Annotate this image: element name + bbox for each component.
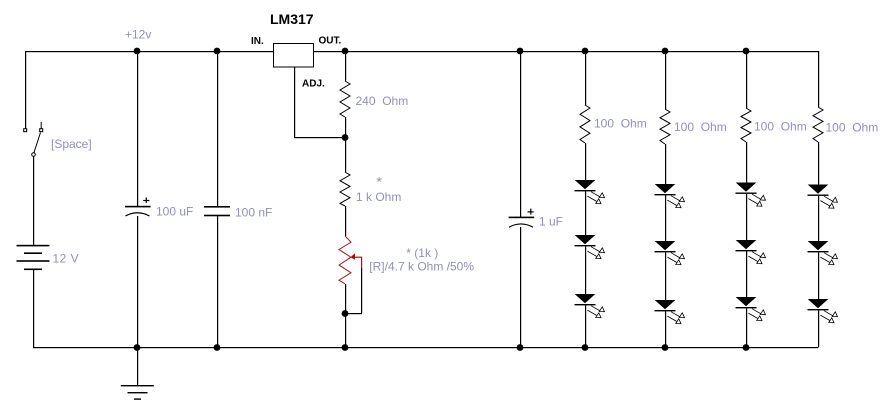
- svg-text:LM317: LM317: [270, 11, 314, 27]
- svg-text:12 V: 12 V: [53, 252, 80, 266]
- wire C2 top: [217, 51, 218, 206]
- resistor R5 100 Ohm: [741, 108, 751, 142]
- wire U1 ADJ vertical: [294, 67, 295, 137]
- wire R4 branch segment: [665, 252, 666, 300]
- wire R5 branch top: [746, 51, 747, 108]
- wire R4 branch top: [665, 51, 666, 109]
- node bottom C2: [214, 344, 221, 351]
- wire R4 branch segment: [665, 144, 666, 184]
- wire U1 ADJ horizontal: [294, 137, 345, 138]
- svg-text:100 uF: 100 uF: [156, 205, 193, 219]
- node bottom R3 branch: [582, 344, 589, 351]
- svg-text:[R]/4.7 k Ohm /50%: [R]/4.7 k Ohm /50%: [369, 260, 474, 274]
- node top R5 branch: [743, 48, 750, 55]
- node VR1 junction: [342, 310, 349, 317]
- svg-text:[Space]: [Space]: [51, 137, 92, 151]
- op-amp U1 LM317 regulator box: [274, 44, 314, 68]
- node +12v top: [134, 48, 141, 55]
- wire R5 branch segment: [746, 251, 747, 297]
- wire R1 top: [345, 51, 346, 81]
- resistor R2 1 k Ohm: [340, 172, 350, 206]
- resistor R1 240 Ohm: [340, 81, 350, 117]
- wire R3 branch bottom: [585, 305, 586, 347]
- LED D4: [655, 184, 685, 208]
- wire wiper black horizontal: [345, 313, 362, 314]
- wire R6 branch top: [818, 51, 819, 107]
- LED D9: [736, 297, 766, 321]
- capacitor C1 100 uF: [125, 198, 151, 217]
- LED D6: [655, 300, 685, 324]
- wire C1 top: [137, 51, 138, 206]
- wire R6 branch bottom: [818, 310, 819, 347]
- wire R3 branch segment: [585, 191, 586, 235]
- wire R2 top: [345, 137, 346, 172]
- wire VR1 to bottom rail: [345, 314, 346, 347]
- LED D12: [808, 299, 838, 323]
- wire R4 branch segment: [665, 195, 666, 241]
- svg-text:100 nF: 100 nF: [235, 206, 272, 220]
- battery B1: [17, 245, 50, 270]
- wire bottom rail: [33, 347, 818, 348]
- wire C3 bottom: [520, 227, 521, 347]
- LED D8: [736, 240, 766, 264]
- node top R4 branch: [662, 48, 669, 55]
- wire top rail left segment: [25, 51, 274, 52]
- potentiometer VR1 wiper arrow: [351, 253, 356, 259]
- LED D5: [655, 241, 685, 265]
- node top R3 branch: [582, 48, 589, 55]
- wire R5 branch segment: [746, 194, 747, 240]
- wire top rail right segment: [313, 51, 818, 52]
- svg-text:1 uF: 1 uF: [539, 215, 563, 229]
- LED D10: [808, 185, 838, 209]
- node C3 bottom: [517, 344, 524, 351]
- resistor R6 100 Ohm: [813, 107, 823, 142]
- node bottom VR1: [342, 344, 349, 351]
- LED D2: [575, 235, 605, 259]
- resistor R3 100 Ohm: [580, 105, 590, 143]
- svg-text:+12v: +12v: [125, 28, 151, 42]
- wire battery to bottom rail: [33, 270, 34, 347]
- wire R4 branch bottom: [665, 311, 666, 347]
- svg-text:100 Ohm: 100 Ohm: [826, 121, 879, 135]
- svg-text:100 Ohm: 100 Ohm: [594, 117, 647, 131]
- svg-text:*: *: [376, 174, 382, 190]
- ground: [121, 347, 154, 400]
- svg-text:OUT.: OUT.: [319, 35, 342, 46]
- wire switch to battery: [33, 156, 34, 245]
- capacitor C3 1 uF: [509, 209, 535, 228]
- wire wiper black vertical: [361, 268, 362, 313]
- node C3 top: [517, 48, 524, 55]
- svg-text:IN.: IN.: [251, 36, 264, 47]
- node OUT: [342, 48, 349, 55]
- capacitor C2 100 nF: [204, 206, 230, 216]
- node bottom R5 branch: [743, 344, 750, 351]
- potentiometer VR1 body: [339, 236, 351, 284]
- wire C1 bottom: [137, 216, 138, 347]
- svg-text:ADJ.: ADJ.: [302, 79, 325, 90]
- svg-text:100 Ohm: 100 Ohm: [674, 120, 727, 134]
- wire wiper red vertical: [361, 257, 362, 268]
- wire R5 branch bottom: [746, 308, 747, 347]
- node bottom C1 / ground junction: [134, 344, 141, 351]
- wire R3 branch segment: [585, 143, 586, 180]
- LED D1: [575, 180, 605, 204]
- node ADJ junction: [342, 134, 349, 141]
- resistor R4 100 Ohm: [660, 109, 670, 144]
- LED D7: [736, 183, 766, 207]
- wire R5 branch segment: [746, 142, 747, 183]
- wire VR1 bottom: [345, 284, 346, 314]
- wire R2 bottom: [345, 206, 346, 236]
- wire left vertical to switch: [25, 51, 26, 129]
- wire C2 bottom: [217, 216, 218, 347]
- svg-text:* (1k ): * (1k ): [406, 246, 438, 260]
- wire R3 branch top: [585, 51, 586, 105]
- switch S1 [Space]: [24, 122, 43, 156]
- LED D11: [808, 241, 838, 265]
- svg-text:100 Ohm: 100 Ohm: [754, 120, 807, 134]
- svg-text:240 Ohm: 240 Ohm: [356, 94, 409, 108]
- wire R6 branch segment: [818, 142, 819, 185]
- node C2 top: [214, 48, 221, 55]
- wire R6 branch segment: [818, 196, 819, 241]
- node bottom R4 branch: [662, 344, 669, 351]
- wire R1 bottom: [345, 117, 346, 137]
- wire R6 branch segment: [818, 252, 819, 299]
- wire wiper red horizontal: [355, 257, 362, 258]
- wire C3 top: [520, 51, 521, 217]
- wire R3 branch segment: [585, 246, 586, 294]
- svg-text:1 k Ohm: 1 k Ohm: [356, 190, 401, 204]
- LED D3: [575, 294, 605, 318]
